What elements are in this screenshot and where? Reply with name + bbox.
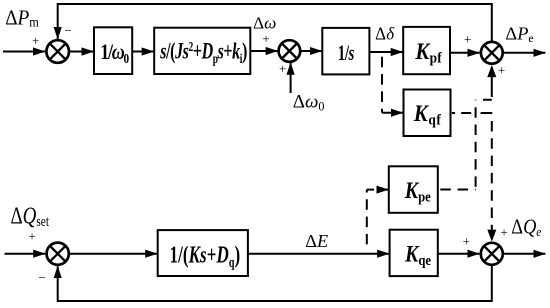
svg-text:+: + [463,234,470,249]
svg-text:+: + [279,61,286,76]
svg-text:+: + [464,32,471,47]
svg-text:ΔE: ΔE [305,231,328,251]
svg-text:−: − [64,23,71,38]
svg-text:+: + [28,229,35,244]
svg-text:s/(Js2+Dps+ki): s/(Js2+Dps+ki) [160,38,248,66]
svg-text:−: − [38,270,45,285]
svg-text:+: + [500,225,507,240]
svg-text:+: + [32,33,39,48]
svg-text:Δδ: Δδ [375,23,395,44]
svg-text:+: + [498,62,505,77]
svg-text:Δω: Δω [253,14,276,33]
svg-text:+: + [262,31,269,46]
svg-text:1/s: 1/s [338,41,355,66]
